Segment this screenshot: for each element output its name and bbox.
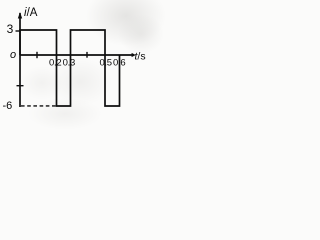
arrowhead x-axis (132, 53, 136, 57)
svg-text:0.5: 0.5 (99, 58, 111, 69)
square-wave i(t) (20, 30, 120, 106)
svg-text:o: o (10, 49, 16, 61)
svg-text:-6: -6 (3, 100, 13, 112)
svg-text:0.3: 0.3 (63, 58, 75, 69)
arrowhead y-axis (18, 12, 22, 19)
scan smudge top right (86, 0, 166, 46)
scan smudge center (48, 58, 112, 106)
y-axis (19, 13, 21, 107)
svg-text:3: 3 (7, 22, 14, 36)
svg-text:0.6: 0.6 (113, 58, 125, 69)
tick t=0.1 (36, 52, 38, 58)
tick i=3 (16, 30, 21, 32)
x-axis (20, 54, 133, 56)
scan smudge mid left (20, 66, 64, 100)
tick t=0.4 (86, 52, 88, 58)
svg-text:0.2: 0.2 (49, 58, 61, 69)
svg-text:t/s: t/s (135, 51, 146, 63)
dashed level -6 (21, 105, 56, 107)
scan smudge top right 2 (118, 14, 164, 54)
tick i=-3 (17, 85, 24, 87)
svg-text:i/A: i/A (24, 7, 38, 19)
scan smudge bottom center (28, 98, 102, 130)
